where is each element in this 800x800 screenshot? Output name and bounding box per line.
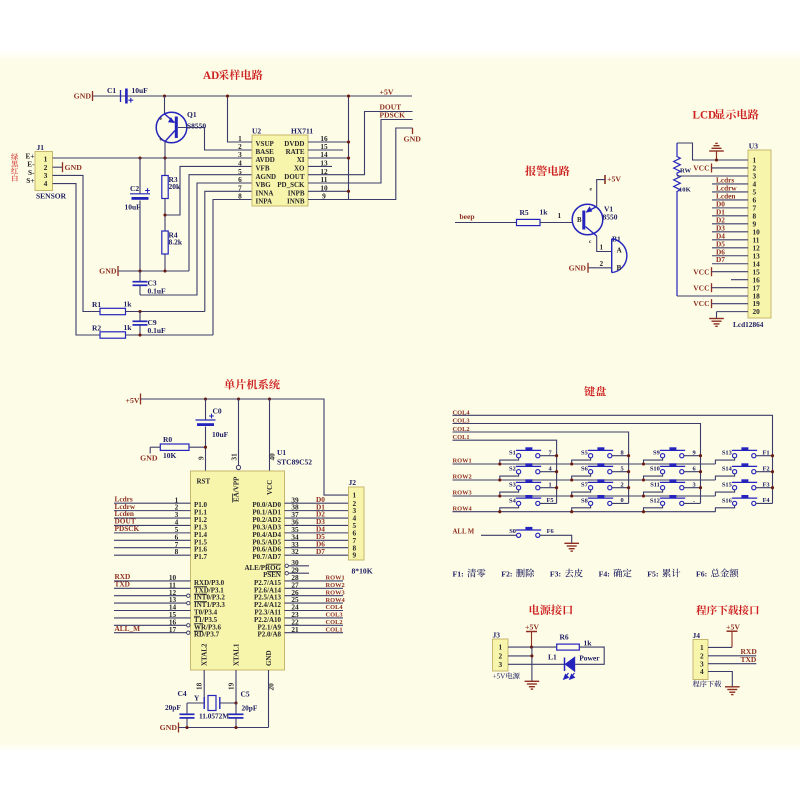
svg-text:COL2: COL2: [326, 619, 343, 626]
svg-text:9: 9: [353, 551, 357, 560]
svg-text:U1: U1: [277, 448, 286, 457]
svg-text:8: 8: [238, 192, 242, 201]
earth ground (S0): [564, 542, 579, 544]
label 程序下载: [693, 680, 721, 687]
earth ground (U3 pin20): [709, 318, 724, 320]
svg-text:D7: D7: [716, 255, 725, 264]
svg-text:1: 1: [600, 243, 604, 252]
svg-text:AD: AD: [203, 70, 219, 82]
svg-text:VFB: VFB: [256, 165, 270, 173]
wire S- to R1: [53, 175, 101, 311]
svg-text:S14: S14: [722, 466, 733, 473]
ground GND line: [117, 266, 119, 276]
wire VCC stub: [269, 399, 271, 471]
svg-text:1k: 1k: [540, 207, 549, 216]
capacitor C9 0.1uF: [139, 312, 141, 322]
svg-text:beep: beep: [460, 212, 475, 221]
svg-text:DVDD: DVDD: [284, 140, 304, 148]
wire S15 contacts: [715, 490, 734, 496]
svg-text:PDSCK: PDSCK: [115, 524, 140, 533]
switch S8: [589, 501, 593, 505]
svg-text:S11: S11: [650, 482, 660, 489]
switch S3: [517, 486, 521, 490]
svg-text:C5: C5: [241, 690, 250, 699]
svg-text:LCD: LCD: [693, 110, 717, 122]
transistor Q1 S8550: [156, 112, 187, 143]
svg-text:19: 19: [226, 682, 235, 690]
wire U3 pin 10 D3: [712, 231, 748, 233]
svg-text:GND: GND: [99, 267, 117, 276]
svg-text:HX711: HX711: [291, 126, 313, 135]
wire VBG: [140, 183, 252, 295]
wire S2 contacts: [500, 474, 519, 480]
svg-text:AVDD: AVDD: [256, 156, 275, 164]
svg-text:TXD: TXD: [115, 580, 130, 589]
svg-text:S10: S10: [650, 466, 660, 473]
svg-text:S16: S16: [722, 497, 733, 504]
svg-text:Lcd12864: Lcd12864: [733, 320, 764, 329]
svg-text:STC89C52: STC89C52: [277, 458, 312, 467]
wire base to U2 pin2: [178, 128, 252, 151]
svg-text:+5V: +5V: [525, 623, 539, 632]
capacitor C3 0.1uF: [139, 271, 141, 282]
svg-text:F3:: F3:: [550, 570, 561, 579]
svg-text:SENSOR: SENSOR: [36, 192, 67, 201]
switch S13: [733, 454, 737, 458]
svg-text:0.1uF: 0.1uF: [148, 326, 167, 335]
wire J4 pin1: [708, 646, 732, 648]
connector U3: [748, 150, 771, 318]
svg-text:2: 2: [600, 259, 604, 268]
ground GND (J1 pin2): [62, 162, 64, 172]
svg-text:B: B: [577, 217, 582, 224]
svg-text:VCC: VCC: [266, 480, 274, 495]
svg-text:BASE: BASE: [256, 148, 275, 156]
svg-text:+5V: +5V: [726, 623, 740, 632]
svg-text:1k: 1k: [124, 299, 133, 308]
svg-text:S8550: S8550: [187, 122, 206, 131]
wire J4 pin4 to earth: [708, 672, 732, 687]
svg-text:4: 4: [700, 667, 704, 676]
switch S4: [517, 501, 521, 505]
wire COL3: [453, 424, 701, 504]
svg-text:D7: D7: [316, 547, 325, 556]
svg-text:1k: 1k: [124, 323, 133, 332]
svg-text:+5V: +5V: [126, 396, 140, 405]
connector J2 8*10K: [349, 487, 365, 560]
VCC tick U3 pin 15: [711, 267, 713, 276]
svg-text:RST: RST: [197, 478, 211, 486]
wire U2 pin1 VSUP to +5V: [228, 96, 253, 142]
ground GND (INNB): [412, 128, 414, 134]
overline RD: [194, 630, 203, 632]
wire J3 pin2 to earth: [508, 655, 532, 657]
ground GND (C1): [92, 91, 94, 101]
overline T1: [194, 615, 200, 617]
title 报警电路: [525, 165, 569, 176]
svg-text:4: 4: [44, 179, 48, 188]
svg-text:S3: S3: [509, 482, 516, 489]
wire U3 pin 11 D4: [712, 239, 748, 241]
svg-text:8550: 8550: [603, 213, 618, 222]
wire +5V rail: [93, 95, 412, 97]
switch S7: [589, 486, 593, 490]
wire S0 to earth: [540, 535, 572, 543]
wire XI: [308, 157, 349, 159]
svg-text:Y: Y: [194, 694, 200, 703]
overline TXD: [194, 586, 207, 588]
svg-text:20: 20: [753, 307, 761, 316]
svg-text:S13: S13: [722, 450, 732, 457]
svg-text:B: B: [617, 263, 622, 272]
svg-text:R6: R6: [560, 633, 569, 642]
wire S6 contacts: [572, 474, 591, 480]
svg-text:S2: S2: [509, 466, 516, 473]
svg-text:ALL_M: ALL_M: [115, 624, 141, 633]
title 电源接口: [530, 604, 573, 615]
svg-text:XTAL1: XTAL1: [232, 643, 240, 666]
svg-text:ROW4: ROW4: [326, 597, 346, 604]
wire J3 pin3 to LED: [508, 663, 565, 665]
wire S12 contacts: [644, 506, 663, 512]
svg-text:10uF: 10uF: [212, 430, 229, 439]
wire U3 pin 5 Lcdrw: [712, 191, 748, 193]
svg-text:DOUT: DOUT: [284, 173, 305, 181]
svg-text:COL4: COL4: [326, 604, 344, 611]
wire emitter V1: [597, 180, 605, 207]
svg-text:8*10K: 8*10K: [352, 567, 373, 576]
svg-text:F5:: F5:: [647, 570, 658, 579]
svg-text:3: 3: [499, 660, 503, 669]
switch S12: [661, 501, 665, 505]
svg-text:F4:: F4:: [599, 570, 610, 579]
svg-text:ALL M: ALL M: [453, 529, 475, 536]
svg-text:GND: GND: [74, 92, 92, 101]
svg-text:10uF: 10uF: [132, 86, 149, 95]
title 程序下载接口: [696, 605, 759, 615]
ground GND (B1): [587, 263, 589, 273]
wire U3 pin 9 D2: [712, 223, 748, 225]
svg-text:F2:: F2:: [501, 570, 512, 579]
VCC tick U3 pin 17: [711, 283, 713, 292]
junction C2 top: [138, 156, 141, 159]
svg-text:VCC: VCC: [693, 267, 709, 276]
wire S5 contacts: [572, 458, 591, 464]
wire E+ to U2 AVDD: [53, 157, 253, 159]
wire U3 pin1 to RW: [677, 143, 748, 160]
svg-text:INPB: INPB: [288, 189, 305, 197]
junction R3 top: [163, 156, 166, 159]
svg-text:VSUP: VSUP: [256, 140, 275, 148]
wire U3 pin 4 Lcdrs: [712, 183, 748, 185]
wire COL1: [453, 440, 557, 503]
svg-text:18: 18: [195, 682, 204, 690]
svg-text:GND: GND: [140, 454, 158, 463]
wire S4 contacts: [500, 506, 519, 512]
junction at Q1 emitter: [163, 94, 166, 97]
wire J4 pin2 RXD: [708, 655, 756, 657]
svg-text:XO: XO: [294, 165, 305, 173]
svg-text:0.1uF: 0.1uF: [148, 287, 167, 296]
svg-text:PDSCK: PDSCK: [380, 111, 406, 120]
svg-text:S12: S12: [650, 497, 660, 504]
svg-text:20k: 20k: [169, 182, 182, 191]
svg-text:VCC: VCC: [693, 164, 709, 173]
resistor RW 10K zigzag: [674, 143, 681, 296]
svg-text:ROW3: ROW3: [326, 589, 345, 596]
svg-text:S8: S8: [581, 497, 588, 504]
svg-text:RATE: RATE: [286, 148, 305, 156]
title 单片机系统: [224, 379, 279, 390]
wire ROW4: [453, 511, 716, 513]
svg-text:20pF: 20pF: [242, 704, 258, 713]
svg-text:10uF: 10uF: [125, 203, 142, 212]
svg-text:C0: C0: [213, 407, 222, 416]
wire AGND: [189, 175, 252, 271]
ground GND (R0): [149, 447, 151, 453]
wire J3 pin1 to R6: [508, 646, 557, 648]
svg-text:RD/P3.7: RD/P3.7: [194, 631, 220, 639]
switch S9: [661, 454, 665, 458]
title 键盘: [584, 386, 606, 396]
svg-text:Power: Power: [579, 654, 600, 663]
svg-text:AGND: AGND: [256, 173, 277, 181]
svg-text:GND: GND: [265, 650, 273, 666]
svg-text:INPA: INPA: [256, 198, 273, 206]
connector J4: [693, 640, 708, 680]
wire E- to GND: [53, 166, 63, 168]
svg-text:S6: S6: [581, 466, 589, 473]
wire COL2: [453, 432, 629, 503]
wire U3 pin16 stub: [731, 279, 748, 281]
power +5V (V1): [604, 175, 606, 184]
wire R5 to V1 base: [540, 222, 573, 224]
svg-text:1: 1: [499, 643, 503, 652]
wire ROW1: [453, 463, 716, 465]
switch S16: [733, 501, 737, 505]
switch S1: [517, 454, 521, 458]
wire INPB: [308, 190, 349, 192]
wire R1 to INNA: [126, 311, 205, 313]
wire S14 contacts: [715, 474, 734, 480]
wire +5V rail MCU: [141, 399, 349, 495]
connector J3: [493, 639, 509, 671]
wire J4 pin3 TXD: [708, 663, 756, 665]
transistor V1 8550: [572, 204, 603, 235]
svg-text:C1: C1: [107, 86, 116, 95]
svg-text:J1: J1: [37, 143, 45, 152]
svg-text:PD_SCK: PD_SCK: [277, 181, 305, 189]
svg-text:S0: S0: [509, 528, 516, 535]
wire EA/VPP stub: [238, 399, 240, 465]
svg-text:P0.7/AD7: P0.7/AD7: [252, 553, 281, 561]
svg-text:XI: XI: [297, 156, 305, 164]
svg-text:20pF: 20pF: [165, 703, 181, 712]
IC U1 STC89C52: [191, 471, 285, 670]
svg-text:S4: S4: [509, 497, 517, 504]
overline INT1: [194, 601, 207, 603]
earth ground (U3 pin1): [716, 151, 718, 160]
svg-text:S9: S9: [653, 450, 660, 457]
svg-text:10K: 10K: [163, 451, 177, 460]
svg-text:J2: J2: [349, 478, 357, 487]
wire S9 contacts: [644, 458, 663, 464]
wire U3 pin18 to RW bottom: [677, 295, 748, 297]
svg-text:R2: R2: [92, 324, 101, 333]
wire R0 to RST: [189, 446, 206, 448]
connector J1 SENSOR: [35, 152, 53, 191]
svg-text:COL3: COL3: [326, 612, 343, 619]
svg-text:VBG: VBG: [256, 181, 272, 189]
wire S+ to R2: [53, 184, 101, 335]
wire VFB tap: [165, 166, 252, 215]
svg-text:R5: R5: [520, 208, 529, 217]
svg-text:10K: 10K: [679, 187, 692, 194]
svg-text:S7: S7: [581, 482, 589, 489]
wire U3 pin 14 D7: [712, 263, 748, 265]
svg-text:EA/VPP: EA/VPP: [233, 476, 241, 502]
svg-text:INNB: INNB: [287, 198, 305, 206]
svg-text:F6:: F6:: [696, 570, 707, 579]
svg-text:VCC: VCC: [693, 283, 709, 292]
svg-text:R0: R0: [163, 435, 172, 444]
wire S11 contacts: [644, 490, 663, 496]
resistor R4 8.2k: [162, 231, 168, 254]
overline ALE/PROG: [266, 563, 281, 565]
ground GND (crystal): [178, 723, 180, 733]
svg-text:GND: GND: [160, 723, 178, 732]
wire B1 pin2 to GND: [589, 267, 612, 269]
svg-text:XTAL2: XTAL2: [201, 643, 209, 666]
switch S10: [661, 470, 665, 474]
svg-text:A: A: [617, 246, 623, 255]
wire U3 pin 13 D6: [712, 255, 748, 257]
wire S3 contacts: [500, 490, 519, 496]
svg-text:VCC: VCC: [693, 299, 709, 308]
wire R2 to INPA: [126, 334, 214, 336]
svg-text:C4: C4: [178, 689, 187, 698]
svg-text:F1:: F1:: [453, 570, 464, 579]
svg-text:11.0572M: 11.0572M: [199, 712, 229, 721]
svg-text:RW: RW: [680, 168, 692, 175]
svg-text:S15: S15: [722, 482, 732, 489]
wire R6 to LED: [575, 647, 604, 664]
svg-text:TXD: TXD: [741, 655, 757, 664]
wire collector: [164, 142, 166, 159]
wire beep to R5: [455, 222, 517, 224]
switch S14: [733, 470, 737, 474]
resistor R3 20k: [164, 158, 166, 176]
capacitor C0 10uF: [205, 399, 207, 420]
switch S11: [661, 486, 665, 490]
wire U3 pin 8 D1: [712, 215, 748, 217]
svg-text:8.2k: 8.2k: [169, 238, 183, 247]
wire S8 contacts: [572, 506, 591, 512]
svg-text:J3: J3: [493, 631, 501, 640]
wire PD_SCK net: [308, 120, 413, 184]
svg-text:+5V: +5V: [380, 88, 394, 97]
wire XO stub: [308, 165, 332, 167]
wire RATE stub: [308, 149, 343, 151]
VCC tick U3 pin 2: [711, 163, 713, 172]
svg-text:P2.0/A8: P2.0/A8: [257, 631, 281, 639]
IC U2 HX711: [252, 135, 308, 206]
switch S6: [589, 470, 593, 474]
svg-text:GND: GND: [65, 163, 83, 172]
wire ROW3: [453, 495, 716, 497]
wire U3 pin20 to earth: [717, 311, 749, 313]
wire DVDD to +5V: [308, 96, 349, 142]
svg-text:GND: GND: [569, 263, 587, 272]
svg-text:20: 20: [267, 683, 276, 691]
svg-text:ROW1: ROW1: [326, 575, 345, 582]
svg-text:F6: F6: [547, 528, 555, 535]
svg-text:L1: L1: [548, 653, 557, 662]
wire ALL_M to S0: [481, 534, 517, 536]
svg-text:U2: U2: [252, 126, 261, 135]
switch S2: [517, 470, 521, 474]
capacitor C1: [120, 90, 122, 102]
svg-text:1k: 1k: [584, 639, 593, 648]
wire ROW2: [453, 479, 716, 481]
wire S10 contacts: [644, 474, 663, 480]
wire INNB to GND: [308, 199, 349, 201]
switch S5: [589, 454, 593, 458]
svg-text:GND: GND: [404, 135, 422, 144]
VCC tick U3 pin 19: [711, 299, 713, 308]
switch S15: [733, 486, 737, 490]
svg-text:S+: S+: [26, 176, 34, 185]
svg-text:Q1: Q1: [187, 110, 197, 119]
svg-text:INNA: INNA: [256, 189, 274, 197]
wire DOUT net: [308, 112, 413, 175]
wire U3 pin3 to RW wiper: [677, 175, 748, 177]
earth ground (J4): [725, 686, 740, 688]
svg-text:C2: C2: [130, 184, 139, 193]
svg-text:+5V: +5V: [607, 175, 621, 184]
svg-text:S1: S1: [509, 450, 516, 457]
label 绿黑红白: [11, 153, 18, 160]
svg-text:ROW2: ROW2: [326, 582, 345, 589]
capacitor C2: [139, 158, 141, 194]
overline WR: [194, 623, 203, 625]
wire S13 contacts: [715, 458, 734, 464]
svg-text:31: 31: [230, 453, 239, 461]
svg-text:P1.7: P1.7: [194, 553, 208, 561]
overline INT0: [194, 593, 207, 595]
wire U3 pin 6 Lcden: [712, 199, 748, 201]
svg-text:COL1: COL1: [326, 626, 343, 633]
wire U3 pin 12 D5: [712, 247, 748, 249]
earth ground (J3): [525, 680, 540, 682]
svg-text:1: 1: [558, 211, 562, 220]
wire S16 contacts: [715, 506, 734, 512]
wire U3 pin 7 D0: [712, 207, 748, 209]
svg-text:40: 40: [268, 453, 277, 461]
overline PSEN: [267, 571, 281, 573]
svg-text:S5: S5: [581, 450, 588, 457]
svg-text:J4: J4: [693, 631, 701, 640]
wire COL4: [453, 415, 773, 503]
svg-text:U3: U3: [749, 141, 758, 150]
svg-text:9: 9: [197, 456, 206, 460]
svg-text:+5V: +5V: [493, 673, 507, 681]
wire collector to B1: [597, 236, 612, 252]
wire S1 contacts: [500, 458, 519, 464]
wire S7 contacts: [572, 490, 591, 496]
svg-text:R1: R1: [92, 300, 101, 309]
switch S0: [517, 533, 521, 537]
